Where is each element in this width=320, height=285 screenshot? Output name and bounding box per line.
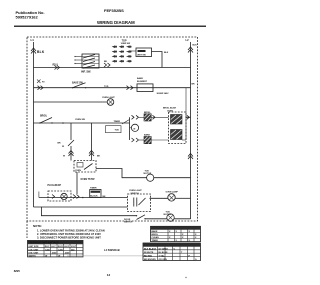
svg-text:BLK: BLK (193, 45, 198, 47)
svg-text:BROIL: BROIL (40, 116, 48, 118)
svg-text:8 IN. UNIT: 8 IN. UNIT (29, 253, 40, 255)
svg-text:2. UPPER BROIL UNIT RATING 300: 2. UPPER BROIL UNIT RATING 3000W MAX AT … (37, 232, 101, 236)
svg-text:5995279162: 5995279162 (16, 14, 39, 19)
svg-text:LH R: LH R (64, 246, 69, 248)
svg-text:FEF352BS: FEF352BS (104, 8, 124, 13)
svg-text:BROIL: BROIL (144, 112, 151, 114)
svg-text:RD RED: RD RED (144, 255, 152, 257)
svg-text:MOTOR: MOTOR (144, 173, 152, 175)
svg-text:RD 8: RD 8 (53, 64, 59, 66)
svg-text:8/95: 8/95 (14, 269, 20, 273)
svg-text:3000W 240V: 3000W 240V (157, 92, 170, 95)
svg-text:WATTS: WATTS (29, 255, 37, 258)
svg-text:12: 12 (107, 273, 111, 277)
svg-text:GY GRAY: GY GRAY (159, 247, 169, 250)
svg-text:VIEW SW: VIEW SW (121, 43, 130, 45)
svg-text:BLK: BLK (37, 50, 45, 54)
svg-text:BK: BK (97, 156, 101, 158)
svg-text:1. LOWER OVEN UNIT RATING 2350: 1. LOWER OVEN UNIT RATING 2350W AT 240V,… (37, 228, 105, 232)
svg-text:BAKE: BAKE (137, 77, 144, 80)
svg-text:TOD: TOD (104, 86, 109, 88)
svg-text:M: M (134, 128, 136, 130)
svg-text:OVEN LIGHT: OVEN LIGHT (102, 97, 115, 99)
svg-text:TOP: TOP (122, 40, 127, 42)
svg-text:BLK BLACK: BLK BLACK (144, 247, 157, 250)
svg-text:BR BROWN: BR BROWN (144, 259, 156, 261)
svg-text:BROIL ELEM: BROIL ELEM (163, 108, 176, 110)
svg-text:BLOCK: BLOCK (90, 195, 98, 197)
svg-text:L1: L1 (31, 38, 35, 42)
svg-text:VOLT: VOLT (71, 246, 77, 248)
svg-text:W WHITE: W WHITE (144, 252, 154, 254)
svg-text:ELEMENT: ELEMENT (137, 81, 148, 83)
svg-text:OVEN LAMP: OVEN LAMP (166, 190, 179, 193)
svg-text:BAKE: BAKE (152, 230, 159, 233)
svg-text:CLEAN: CLEAN (152, 236, 160, 239)
svg-text:BR: BR (58, 143, 62, 145)
svg-text:TIMER: TIMER (90, 188, 97, 190)
svg-text:BAKE SW: BAKE SW (72, 82, 84, 85)
svg-text:3. DISCONNECT POWER BEFORE SER: 3. DISCONNECT POWER BEFORE SERVICING UNI… (37, 235, 101, 239)
svg-text:INF. SW.: INF. SW. (81, 70, 91, 74)
svg-text:UNIT SW: UNIT SW (137, 55, 146, 57)
svg-text:PLUG-RECP: PLUG-RECP (48, 185, 62, 187)
svg-text:BK: BK (104, 61, 108, 63)
svg-text:W: W (45, 256, 47, 258)
svg-text:BROIL: BROIL (152, 234, 159, 236)
svg-text:W: W (62, 146, 64, 148)
svg-text:W: W (58, 256, 60, 258)
svg-text:RH F: RH F (45, 246, 51, 248)
svg-text:Y YEL: Y YEL (159, 255, 166, 257)
svg-text:BAKE: BAKE (144, 134, 151, 137)
svg-text:TOD: TOD (145, 170, 150, 172)
svg-text:BR: BR (192, 84, 196, 86)
svg-text:BK: BK (103, 196, 107, 198)
svg-text:BL BLUE: BL BLUE (159, 252, 169, 254)
svg-text:SWITCH: SWITCH (124, 221, 133, 223)
svg-text:LH F: LH F (51, 246, 56, 248)
svg-text:SURFACE UNIT WATTAGE: SURFACE UNIT WATTAGE (30, 242, 59, 245)
svg-text:RH R: RH R (58, 246, 64, 248)
svg-text:6 IN. UNIT: 6 IN. UNIT (29, 249, 40, 251)
svg-text:OR ORN: OR ORN (159, 259, 168, 261)
svg-text:TIMER: TIMER (114, 121, 121, 123)
svg-text:TIMED: TIMED (152, 240, 159, 242)
svg-text:BLK: BLK (164, 52, 169, 54)
svg-text:OVEN SW: OVEN SW (75, 119, 85, 121)
svg-text:OVEN TSTAT: OVEN TSTAT (81, 178, 96, 181)
svg-text:TOD: TOD (115, 130, 120, 132)
svg-text:OVEN: OVEN (167, 111, 173, 113)
svg-text:OVEN: OVEN (75, 170, 81, 172)
svg-text:NOTE:: NOTE: (33, 224, 42, 228)
svg-text:WIRING DIAGRAM: WIRING DIAGRAM (97, 20, 135, 25)
svg-text:W: W (63, 156, 65, 158)
svg-text:UNIT SIZE: UNIT SIZE (29, 246, 40, 248)
svg-text:L4 5995311B: L4 5995311B (104, 248, 120, 252)
